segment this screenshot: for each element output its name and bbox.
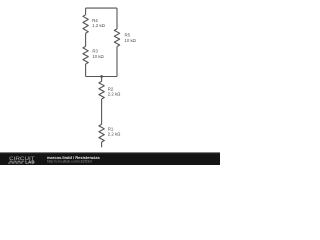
wire right branch upper [116, 8, 118, 29]
svg-text:10 kΩ: 10 kΩ [92, 54, 104, 59]
resistor R1 [99, 124, 104, 142]
logo waveform [8, 161, 24, 163]
svg-text:2.2 kΩ: 2.2 kΩ [108, 132, 121, 137]
wire left branch upper [85, 8, 87, 15]
svg-text:2.2 kΩ: 2.2 kΩ [108, 92, 121, 97]
svg-text:http://circuitlab.com/c52f263: http://circuitlab.com/c52f263 [47, 160, 92, 164]
footer bar [0, 152, 220, 165]
wire left branch lower [85, 64, 87, 77]
resistor R5 [114, 29, 119, 47]
resistor R3 [83, 46, 88, 64]
junction node [100, 75, 103, 78]
resistor R2 [99, 81, 104, 99]
wire middle branch upper [101, 77, 103, 82]
svg-text:LAB: LAB [25, 160, 34, 165]
wire right branch lower [116, 47, 118, 77]
wire bottom of loop [86, 76, 117, 78]
wire bottom terminal [101, 142, 103, 147]
wire left branch middle [85, 33, 87, 46]
wire top horizontal [86, 7, 117, 9]
resistor R4 [83, 15, 88, 33]
svg-text:1.2 kΩ: 1.2 kΩ [92, 23, 105, 28]
wire middle between R2 and R1 [101, 99, 103, 124]
svg-text:10 kΩ: 10 kΩ [125, 38, 137, 43]
